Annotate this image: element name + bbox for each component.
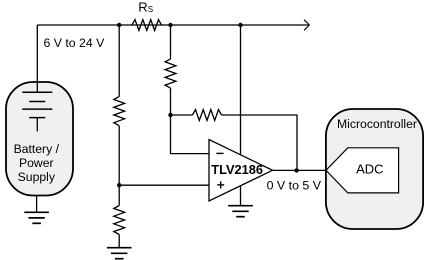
ground (op-amp) — [228, 206, 253, 217]
op-amp minus input sign — [216, 152, 223, 154]
resistor (input, from rail to inverting node) — [165, 59, 176, 88]
wire: op-amp V- to ground — [240, 186, 242, 206]
ground (battery) — [24, 212, 49, 223]
wire: op-amp V+ supply from rail — [240, 25, 242, 155]
node: output junction — [294, 168, 298, 172]
wire: top supply rail — [37, 24, 309, 26]
wire: battery top to rail — [36, 25, 38, 92]
node: rail junction left — [117, 23, 121, 27]
wire: mid branch upper — [170, 25, 172, 59]
wire: below +input node — [118, 185, 120, 205]
op-amp U1 TLV2186 — [209, 140, 273, 202]
op-amp plus input sign — [217, 181, 224, 188]
wire: resistor to ground — [118, 235, 120, 248]
ADC input pentagon — [326, 148, 399, 193]
microcontroller block — [326, 109, 423, 229]
battery / power supply block — [6, 82, 73, 196]
svg-text:Supply: Supply — [18, 170, 56, 184]
ground (divider) — [107, 248, 132, 259]
svg-text:TLV2186: TLV2186 — [211, 162, 263, 177]
wire: resistor to feedback node — [170, 88, 172, 115]
node: rail junction mid — [168, 23, 172, 27]
svg-text:Power: Power — [19, 156, 54, 170]
battery symbol — [22, 92, 52, 131]
svg-text:RS: RS — [138, 0, 153, 14]
svg-text:Microcontroller: Microcontroller — [337, 117, 417, 131]
resistor RS (sense, horizontal on rail) — [132, 20, 162, 31]
node: non-inverting input junction — [117, 183, 121, 187]
wire: down and right to op-amp - input — [171, 115, 210, 154]
svg-text:ADC: ADC — [356, 162, 383, 177]
wire: left branch upper — [118, 25, 120, 97]
node: inverting input / feedback junction — [168, 113, 172, 117]
wire: feedback to output node — [222, 115, 298, 170]
svg-text:6 V to 24 V: 6 V to 24 V — [44, 36, 106, 50]
node: rail junction right (op-amp supply) — [238, 23, 242, 27]
svg-text:Battery /: Battery / — [14, 142, 60, 156]
wire: to op-amp + input — [119, 184, 209, 186]
svg-text:0 V to 5 V: 0 V to 5 V — [267, 178, 322, 192]
arrow head on rail — [304, 20, 310, 31]
wire: op-amp output to ADC — [273, 169, 327, 171]
wire: left branch to +input node — [118, 126, 120, 186]
resistor (left divider bottom) — [114, 206, 125, 235]
resistor (feedback) — [171, 114, 193, 116]
resistor (left divider top) — [114, 97, 125, 126]
wire: battery bottom to ground — [36, 196, 38, 213]
